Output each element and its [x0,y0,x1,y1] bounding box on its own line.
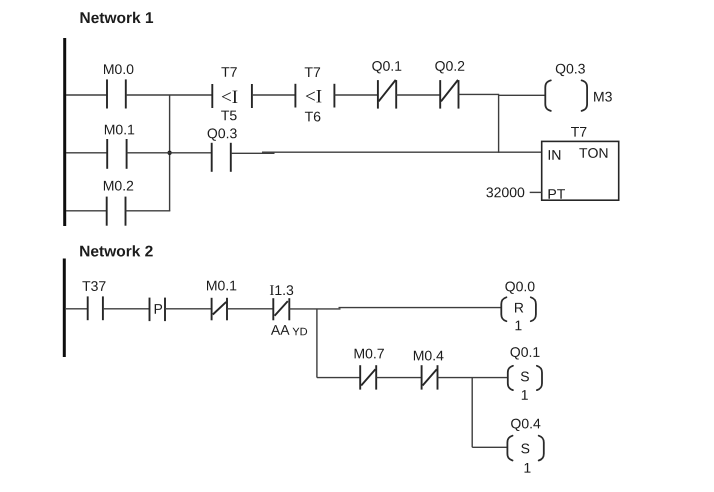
junction dot [167,151,171,155]
NC contact M0.7 [355,349,384,390]
PT preset value 32000 [486,187,524,197]
reset coil Q0.0 [501,282,536,331]
coil Q0.3 / M3 [545,64,612,111]
wire compare T6 to Q0.1 [334,94,378,96]
branch vertical to timer rung [498,95,500,153]
wire T37 to edge contact P [103,308,150,310]
wire P to M0.1 [165,308,212,310]
wire step joint to reset coil Q0.0 [339,307,502,309]
wire I1.3 to step joint [289,308,340,310]
PT stub wire [530,191,542,193]
network 1 title [81,12,154,23]
wire M0.7 to M0.4 [376,377,421,379]
wire branch junction to coil Q0.3 [499,94,546,96]
NC contact M0.1 [207,281,236,321]
wire M0.1 to I1.3 [227,308,273,310]
compare contact T5 &lt; T7 [212,67,252,120]
wire compare T5 to compare T6 [252,94,296,96]
wire branch to set coil Q0.4 [472,446,507,448]
set coil Q0.1 [508,347,542,400]
wire M0.1 to contact Q0.3 [127,152,212,154]
wire rail to M0.2 [66,210,107,212]
wire rail to T37 [66,308,88,310]
NC contact Q0.1 [372,61,401,109]
NC contact M0.4 [414,351,444,390]
contact M0.1 [105,125,134,169]
positive edge contact P [150,298,166,322]
contact M0.0 [104,64,133,108]
set coil Q0.4 [507,419,543,473]
wire branch to M0.7 [317,377,360,379]
branch vertical to M0.7 rung [316,309,318,378]
wire M0.2 to branch vertical [126,210,171,212]
wire overlap joint to timer box [262,151,542,153]
wire Q0.2 to branch junction [459,93,500,95]
NC contact I1.3 / AA YD [270,285,307,335]
network 2 title [80,245,153,256]
contact T37 [82,281,105,320]
wire rail to M0.0 [66,94,107,96]
compare contact T6 &lt; T7 [295,67,334,121]
left power rail (network 2) [63,259,66,358]
wire rail to M0.1 [66,152,107,154]
branch vertical to Q0.4 rung [471,378,473,448]
left power rail (network 1) [63,38,66,226]
NC contact Q0.2 [435,61,464,109]
branch vertical joining M0.0/M0.1/M0.2 rungs [169,95,171,211]
wire M0.4 to set coil Q0.1 [438,377,508,379]
timer box T7 TON [542,127,619,200]
wire Q0.1 to Q0.2 [396,94,440,96]
contact Q0.3 [208,128,237,171]
wire M0.0 to compare contact T5 [126,94,213,96]
contact M0.2 [104,181,133,226]
wire contact Q0.3 to overlap joint [231,152,275,154]
